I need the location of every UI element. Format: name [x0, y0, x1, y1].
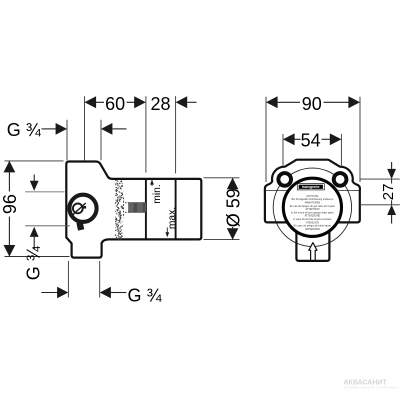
right view lower body outline — [265, 190, 360, 222]
dimension 60 — [85, 94, 146, 160]
watermark — [344, 380, 397, 390]
bottom tube outline — [296, 222, 329, 261]
ear port left — [278, 173, 291, 186]
bottom G 3/4 dimension — [41, 261, 162, 305]
side port arrows + G 3/4 label (rotated) — [23, 175, 43, 281]
svg-text:G ¾: G ¾ — [23, 245, 43, 280]
label G 3/4 top — [7, 120, 127, 161]
screw (hatched) — [125, 203, 145, 213]
svg-text:ИНТЕРНЕТ-МАГАЗИН САНТЕХНИКИ: ИНТЕРНЕТ-МАГАЗИН САНТЕХНИКИ — [344, 386, 396, 390]
svg-text:27: 27 — [380, 184, 397, 201]
dimension 27 — [360, 162, 400, 224]
svg-text:hansgrohe: hansgrohe — [302, 185, 319, 189]
svg-text:min.: min. — [152, 184, 163, 203]
svg-text:90: 90 — [302, 94, 322, 114]
handle inner lever — [73, 204, 83, 214]
dimension diameter 59 — [204, 178, 244, 240]
svg-text:G ¾: G ¾ — [128, 285, 163, 305]
svg-text:G ¾: G ¾ — [7, 120, 42, 140]
svg-text:APPARATEN: APPARATEN — [305, 228, 320, 231]
side port extension lines — [25, 191, 64, 193]
svg-text:max.: max. — [167, 207, 178, 229]
stipple band (plaster range) — [115, 180, 123, 240]
max label — [165, 207, 178, 237]
svg-text:54: 54 — [301, 131, 321, 151]
left view body outline — [66, 162, 201, 258]
hidden edge dashed line — [123, 198, 125, 218]
shoulder/body joint line — [265, 189, 360, 191]
svg-text:Ø 59: Ø 59 — [223, 188, 243, 227]
min label — [150, 180, 163, 204]
big front ring — [283, 178, 341, 236]
dimension 96 — [0, 161, 69, 257]
dimension 28 — [146, 94, 197, 173]
right view white fills — [265, 190, 360, 222]
flow arrow in tube — [309, 243, 317, 261]
ear port right — [334, 173, 347, 186]
dimension 90 — [266, 94, 360, 182]
svg-text:28: 28 — [150, 94, 170, 114]
left view internal section line (max) — [175, 179, 177, 239]
warning micro text — [290, 195, 336, 231]
svg-text:60: 60 — [105, 94, 125, 114]
wall cutout thin circle — [273, 168, 351, 246]
svg-text:96: 96 — [0, 194, 20, 214]
right view shoulder outline — [265, 160, 360, 191]
handle bottom stub — [76, 222, 84, 231]
left view internal section line (min) — [145, 179, 147, 239]
handle ring — [69, 195, 96, 222]
hansgrohe label — [297, 184, 324, 190]
dimension 54 — [283, 131, 341, 166]
